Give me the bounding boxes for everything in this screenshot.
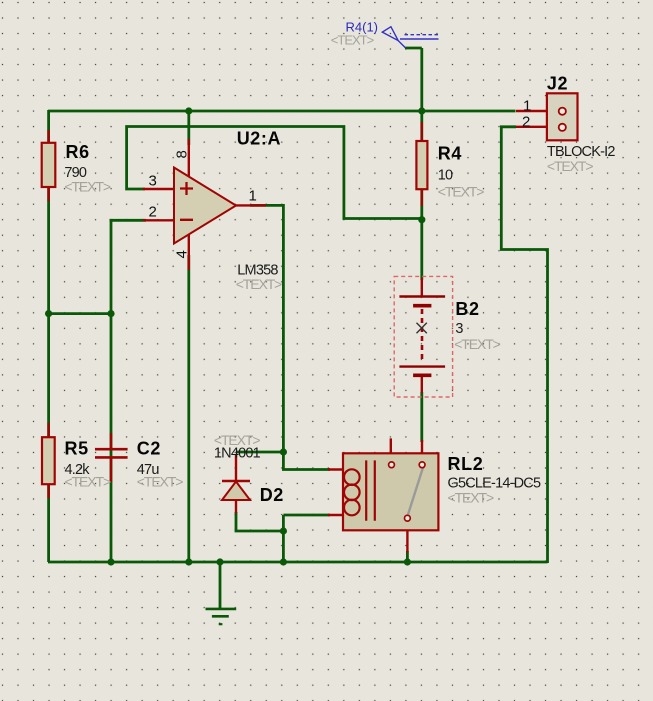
junction node rail/relay common — [404, 558, 411, 565]
placeholder text U2 — [236, 276, 282, 292]
svg-text:2: 2 — [522, 114, 530, 131]
svg-text:<TEXT>: <TEXT> — [331, 32, 374, 47]
junction node at C2 top branch — [107, 310, 114, 317]
placeholder text J2 — [547, 158, 593, 174]
wire: bottom ground rail — [48, 561, 548, 564]
placeholder text R5 — [65, 474, 111, 490]
svg-text:1: 1 — [249, 188, 257, 205]
label C2 — [137, 439, 161, 459]
svg-text:<TEXT>: <TEXT> — [454, 336, 500, 352]
svg-text:<TEXT>: <TEXT> — [448, 490, 494, 506]
junction node at R6 bottom branch — [45, 310, 52, 317]
junction node at probe / top rail — [418, 107, 425, 114]
svg-text:8: 8 — [174, 150, 191, 158]
svg-text:<TEXT>: <TEXT> — [137, 474, 183, 490]
svg-text:RL2: RL2 — [448, 454, 484, 474]
wire: left vertical R6/R5 branch — [47, 110, 50, 562]
resistor R6 pin stubs — [47, 130, 49, 201]
label J2 — [547, 73, 568, 93]
diode D2 — [222, 481, 250, 500]
pin number 4 — [174, 250, 191, 258]
label R6 — [66, 142, 90, 162]
svg-text:R6: R6 — [66, 142, 90, 162]
label U2:A — [237, 129, 281, 149]
resistor R4 — [416, 141, 427, 189]
relay RL2 pin stubs — [328, 438, 422, 552]
svg-text:B2: B2 — [455, 299, 479, 319]
connector J2 — [547, 93, 578, 140]
wire: op-amp pin4 down to ground rail — [187, 255, 190, 562]
connector J2 pin stubs — [516, 111, 547, 127]
J2 pin number 1 — [523, 97, 531, 114]
value 10 — [438, 168, 453, 184]
resistor R5 — [42, 437, 55, 484]
svg-text:<TEXT>: <TEXT> — [214, 432, 260, 448]
label R5 — [65, 439, 89, 459]
resistor R5 pin stubs — [47, 423, 49, 498]
J2 pin number 2 — [522, 114, 530, 131]
wire: feedback loop pin3 to R4 bottom node — [127, 127, 422, 219]
svg-text:<TEXT>: <TEXT> — [236, 276, 282, 292]
battery B2 — [399, 297, 445, 376]
wire: D2 anode branch — [236, 512, 283, 531]
placeholder text R4 — [438, 184, 484, 200]
value TBLOCK-I2 — [547, 144, 615, 160]
svg-text:10: 10 — [438, 168, 453, 184]
resistor R4 pin stubs — [421, 122, 423, 206]
svg-text:3: 3 — [149, 173, 157, 190]
value 47u — [137, 462, 160, 478]
battery B2 dashed selection box — [394, 276, 452, 397]
svg-text:<TEXT>: <TEXT> — [547, 158, 593, 174]
svg-text:D2: D2 — [260, 485, 284, 505]
value 3 — [455, 321, 463, 337]
wire: J2 pin2 to ground rail — [501, 127, 547, 563]
placeholder text B2 — [454, 336, 500, 352]
battery B2 pin stubs — [421, 278, 423, 393]
svg-text:R4: R4 — [438, 144, 462, 164]
placeholder text RL2 — [448, 490, 494, 506]
label RL2 — [448, 454, 484, 474]
value 790 — [64, 165, 87, 181]
wire: middle horizontal branch R6-C2 node — [48, 312, 111, 315]
probe label R4(1) — [346, 20, 379, 35]
pin number 8 — [174, 150, 191, 158]
junction node at D2 anode — [280, 527, 287, 534]
placeholder text C2 — [137, 474, 183, 490]
pin number 1 — [249, 188, 257, 205]
ground — [206, 609, 237, 624]
capacitor C2 plates — [95, 449, 128, 457]
wire: op-amp pin8 to top rail — [187, 111, 190, 145]
wire: op-amp pin2 horizontal — [110, 219, 147, 222]
junction node rail/pin4 — [185, 558, 192, 565]
pin number 3 — [149, 173, 157, 190]
pin number 2 — [149, 204, 157, 221]
junction node at D2 cathode — [280, 448, 287, 455]
svg-text:<TEXT>: <TEXT> — [438, 184, 484, 200]
wire: ground stem — [219, 562, 222, 608]
value LM358 — [237, 263, 278, 279]
voltage probe R4(1) — [382, 27, 438, 48]
wire: relay common pin to rail — [406, 551, 409, 562]
svg-text:<TEXT>: <TEXT> — [65, 474, 111, 490]
svg-text:1: 1 — [523, 97, 531, 114]
svg-text:2: 2 — [149, 204, 157, 221]
wire: top rail from R6 top to J2 pin 1 — [48, 110, 516, 113]
probe placeholder text — [331, 32, 374, 47]
wire: relay coil pin2 to ground rail — [283, 515, 330, 562]
wire: D2 cathode branch — [236, 451, 283, 454]
svg-text:3: 3 — [455, 321, 463, 337]
label B2 — [455, 299, 479, 319]
junction node rail/ground — [216, 558, 223, 565]
op-amp U2 triangle — [174, 168, 236, 244]
svg-text:C2: C2 — [137, 439, 161, 459]
junction node rail/coil return — [280, 558, 287, 565]
label D2 — [260, 485, 284, 505]
resistor R6 — [42, 143, 56, 187]
svg-text:4: 4 — [174, 250, 191, 258]
wire: op-amp output to relay coil pin1 — [250, 205, 330, 469]
placeholder text D2 — [214, 432, 260, 448]
diode D2 pin stubs — [235, 454, 237, 513]
junction node at pin8 / top rail — [185, 107, 192, 114]
op-amp U2 pin stubs 3,2,8,4,1 — [143, 139, 266, 270]
value 1N4001 — [214, 446, 261, 462]
label R4 — [438, 144, 462, 164]
value G5CLE-14-DC5 — [448, 475, 541, 491]
svg-text:U2:A: U2:A — [237, 129, 281, 149]
svg-text:R5: R5 — [65, 439, 89, 459]
wire: C2 / op-amp pin2 vertical — [110, 220, 113, 562]
placeholder text R6 — [64, 179, 110, 195]
capacitor C2 pin stubs — [110, 433, 112, 482]
junction node rail/C2 — [107, 558, 114, 565]
wire: probe to R4 to battery vertical — [405, 48, 422, 442]
svg-text:J2: J2 — [547, 73, 568, 93]
value 4.2k — [65, 462, 91, 478]
svg-text:<TEXT>: <TEXT> — [64, 179, 110, 195]
junction node at R4 bottom — [418, 216, 425, 223]
relay RL2 — [343, 453, 438, 530]
